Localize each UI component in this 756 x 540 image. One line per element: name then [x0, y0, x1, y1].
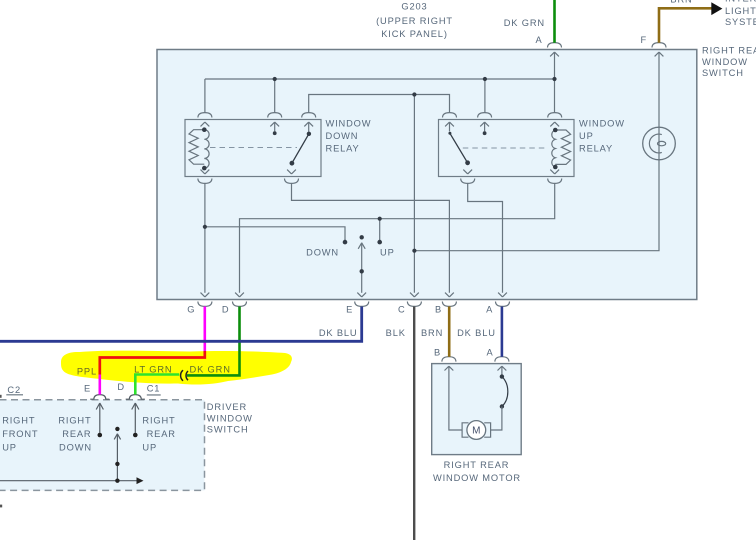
edge artifacts — [0, 395, 2, 398]
relay K1 coil — [189, 130, 204, 165]
relay K2 coil — [555, 130, 570, 164]
wire: K2 coil bottom to pin D net — [240, 183, 555, 292]
svg-text:RIGHT REAR: RIGHT REAR — [702, 46, 756, 56]
junction pin D net / UP branch — [378, 217, 382, 221]
motor M1 symbol — [462, 423, 491, 437]
arrow to interior lights system — [711, 2, 722, 15]
K1 common pin — [302, 113, 316, 127]
svg-text:A: A — [535, 35, 542, 45]
driver switch contact D — [134, 403, 136, 433]
svg-text:F: F — [640, 35, 647, 45]
svg-text:G203: G203 — [401, 1, 427, 11]
svg-text:WINDOW: WINDOW — [326, 118, 372, 128]
svg-text:BRN: BRN — [670, 0, 692, 5]
svg-text:DK GRN: DK GRN — [190, 364, 231, 374]
motor branch pin B wire — [449, 366, 462, 430]
pin F of switch — [652, 43, 666, 57]
svg-text:INTERIOR: INTERIOR — [725, 0, 756, 4]
svg-text:DOWN: DOWN — [306, 247, 339, 257]
wire LT GRN to driver switch pin D — [135, 375, 179, 395]
right rear window switch box — [157, 50, 697, 300]
relay K2 box (window up relay) — [439, 120, 575, 177]
wire: pin C ground stem — [413, 95, 415, 293]
wire PPL from pin G — [204, 307, 207, 352]
junction on B+ bus at K2 contact — [483, 77, 487, 81]
wire: B+ bus (pin A feed to both relays) — [205, 78, 555, 80]
relay K2 armature dashed link — [463, 147, 547, 149]
K1 NO contact pin — [268, 113, 282, 127]
svg-text:C2: C2 — [7, 385, 21, 395]
junction pin G / DOWN branch — [203, 225, 207, 229]
svg-text:KICK PANEL): KICK PANEL) — [381, 29, 448, 39]
driver window switch box (dashed) — [0, 400, 205, 491]
svg-text:D: D — [117, 382, 125, 392]
driver switch pin E — [90, 395, 109, 410]
wire BRN from pin F to lights system — [659, 8, 712, 43]
K1 coil pin bottom — [198, 170, 212, 184]
svg-text:RIGHT REAR: RIGHT REAR — [444, 460, 510, 470]
wire BRN pin B to motor — [448, 307, 451, 357]
rocker switch pole (pin E) — [361, 243, 363, 293]
svg-text:A: A — [486, 347, 493, 357]
relay K1 box (window down relay) — [185, 120, 321, 177]
svg-text:UP: UP — [142, 442, 157, 452]
svg-text:WINDOW: WINDOW — [207, 413, 253, 423]
K1 coil pin top — [198, 113, 212, 127]
svg-text:BLK: BLK — [386, 328, 406, 338]
K2 common pin — [443, 113, 457, 127]
junction pin C / lamp return — [412, 249, 416, 253]
right rear window motor box — [432, 364, 522, 455]
svg-text:SYSTEM: SYSTEM — [725, 17, 756, 27]
driver switch feed wire with arrow — [0, 480, 137, 482]
wire: K2 NO contact feed — [484, 79, 486, 113]
svg-text:REAR: REAR — [147, 429, 176, 439]
wire: K2 switch output to pin A — [468, 183, 503, 292]
wire: K1 NO contact feed — [274, 79, 276, 113]
svg-text:D: D — [222, 305, 230, 315]
svg-text:WINDOW: WINDOW — [702, 57, 748, 67]
svg-text:B: B — [435, 305, 442, 315]
K1 switch output pin — [285, 170, 299, 184]
relay K2 switch blade — [449, 122, 451, 131]
svg-text:RELAY: RELAY — [579, 143, 613, 153]
svg-text:RIGHT: RIGHT — [2, 415, 35, 425]
wire DK BLU pin A to motor — [501, 307, 504, 357]
svg-text:DK BLU: DK BLU — [319, 328, 358, 338]
svg-text:DK BLU: DK BLU — [457, 328, 496, 338]
svg-text:WINDOW: WINDOW — [579, 118, 625, 128]
svg-text:BRN: BRN — [421, 328, 443, 338]
wire DK GRN to pin A (from G203) — [553, 0, 556, 43]
K2 switch output pin — [461, 170, 475, 184]
wire: branch to DOWN contact — [205, 227, 345, 241]
svg-text:PPL: PPL — [77, 367, 97, 377]
red annotation wire — [100, 351, 205, 375]
svg-text:(UPPER RIGHT: (UPPER RIGHT — [376, 16, 453, 26]
svg-text:M: M — [472, 426, 480, 437]
inline connector symbol — [181, 370, 188, 381]
K2 NO contact pin — [478, 113, 492, 127]
wire: pin A stem to K2 coil — [554, 52, 556, 113]
svg-text:UP: UP — [380, 248, 395, 258]
svg-text:C: C — [398, 305, 406, 315]
pin D — [233, 293, 247, 307]
wire PPL to driver switch pin E — [99, 375, 102, 395]
svg-text:A: A — [486, 305, 493, 315]
svg-text:DK GRN: DK GRN — [504, 18, 545, 28]
circuit breaker in motor — [501, 366, 503, 375]
svg-text:DRIVER: DRIVER — [207, 402, 247, 412]
wire: K1 coil bottom to pin G — [204, 183, 206, 292]
svg-text:DOWN: DOWN — [59, 442, 92, 452]
junction on B+ bus at K1 contact — [273, 77, 277, 81]
svg-text:UP: UP — [2, 442, 17, 452]
UP contact — [377, 240, 382, 245]
wire: pin F stem through lamp to ground bus — [414, 52, 659, 251]
pin A bottom — [496, 293, 510, 307]
K2 coil pin bottom — [548, 170, 562, 184]
driver switch contact E — [99, 403, 101, 433]
motor pin B — [442, 357, 456, 371]
lamp (switch illumination) — [643, 127, 676, 160]
svg-text:RELAY: RELAY — [326, 143, 360, 153]
svg-text:E: E — [84, 384, 91, 394]
svg-text:WINDOW MOTOR: WINDOW MOTOR — [433, 473, 521, 483]
svg-text:REAR: REAR — [62, 429, 91, 439]
rocker pole contact — [360, 235, 364, 239]
svg-text:E: E — [346, 305, 353, 315]
svg-text:LIGHTS: LIGHTS — [725, 6, 756, 16]
svg-text:G: G — [187, 305, 195, 315]
wire: K1 coil top feed — [204, 79, 206, 113]
svg-text:LT GRN: LT GRN — [134, 365, 172, 375]
driver switch pole — [115, 427, 119, 431]
svg-text:UP: UP — [579, 131, 594, 141]
pin G — [198, 293, 212, 307]
driver switch pin D — [126, 395, 145, 410]
svg-text:DOWN: DOWN — [326, 131, 359, 141]
svg-text:FRONT: FRONT — [2, 429, 38, 439]
motor pin A — [495, 357, 509, 371]
highlighter annotation — [61, 351, 292, 385]
relay K2 NO contact stub — [484, 122, 486, 131]
K2 coil pin top — [548, 113, 562, 127]
relay K1 switch blade — [308, 122, 310, 132]
node on pole stem — [360, 269, 364, 273]
relay K1 armature dashed link — [210, 147, 297, 149]
wire: branch to UP contact — [379, 219, 381, 241]
pin A top of switch — [548, 43, 562, 57]
wire BLK from pin C — [413, 307, 415, 540]
pin B — [442, 293, 456, 307]
svg-text:B: B — [434, 347, 441, 357]
svg-text:SWITCH: SWITCH — [702, 68, 744, 78]
junction ground bus / pin C — [412, 92, 416, 96]
wire DK GRN from pin D — [187, 307, 240, 376]
relay K1 NO contact stub — [274, 122, 276, 131]
wire: K1 switch output to pin B — [292, 183, 450, 292]
svg-text:SWITCH: SWITCH — [207, 425, 249, 435]
wire DK BLU from pin E — [0, 307, 362, 342]
svg-text:RIGHT: RIGHT — [58, 415, 91, 425]
pin E — [355, 293, 369, 307]
wire: ground bus line to relay commons — [309, 95, 450, 113]
junction on B+ bus at pin A — [552, 77, 556, 81]
pin C — [407, 293, 421, 307]
DOWN contact — [343, 240, 348, 245]
svg-text:RIGHT: RIGHT — [142, 415, 175, 425]
svg-text:C1: C1 — [147, 383, 161, 393]
